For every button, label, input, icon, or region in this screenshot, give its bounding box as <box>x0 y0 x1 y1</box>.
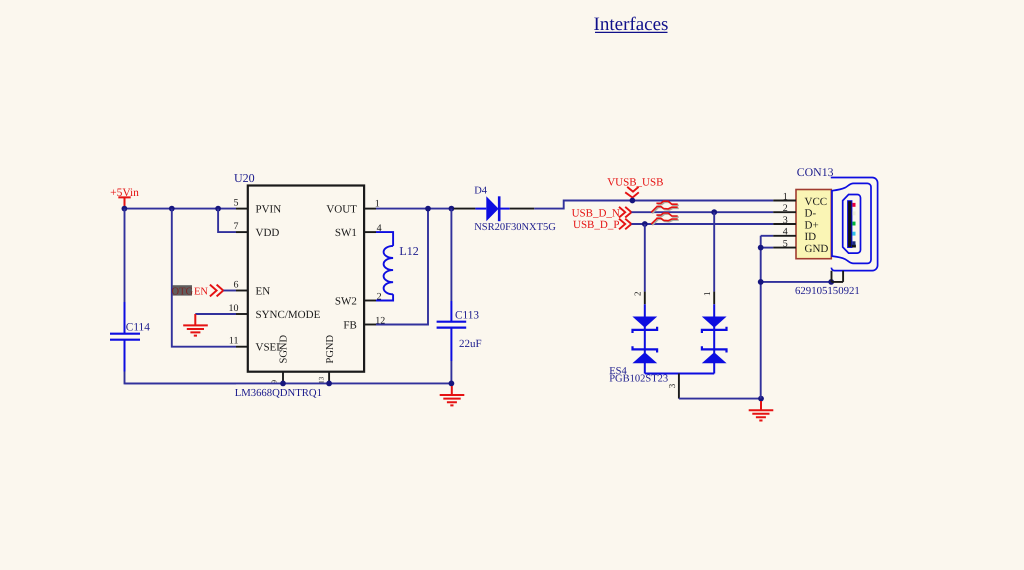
svg-text:SW2: SW2 <box>335 296 357 308</box>
contact 2 <box>852 211 855 215</box>
ground GND1 <box>183 314 208 336</box>
svg-text:2: 2 <box>783 203 788 214</box>
svg-text:C113: C113 <box>455 310 479 322</box>
node junction +5V/C114 <box>122 206 128 212</box>
svg-text:USB_D_N: USB_D_N <box>572 207 620 219</box>
svg-text:22uF: 22uF <box>459 338 482 350</box>
pin 11 VSEL <box>229 336 283 354</box>
svg-text:VDD: VDD <box>256 227 280 239</box>
svg-text:VUSB_USB: VUSB_USB <box>607 177 663 189</box>
USB receptacle face outline <box>843 195 861 254</box>
IC U20 (regulator) <box>234 171 364 372</box>
USB receptacle outer outline <box>831 178 878 271</box>
inductor L12 <box>384 244 419 294</box>
svg-text:CON13: CON13 <box>797 165 834 179</box>
pin 1 VOUT <box>326 198 379 215</box>
svg-text:5: 5 <box>234 198 239 209</box>
ground GND2 <box>440 386 465 405</box>
node junction SGND <box>280 381 286 387</box>
TVS diode A (ES4) <box>632 304 657 373</box>
svg-text:PVIN: PVIN <box>256 204 282 216</box>
svg-text:SGND: SGND <box>278 334 289 363</box>
power port VUSB_USB <box>607 177 663 201</box>
svg-text:4: 4 <box>783 227 788 238</box>
svg-text:10: 10 <box>229 303 239 314</box>
wire SYNC/MODE to ground <box>195 313 236 315</box>
node junction shield T <box>758 279 764 285</box>
node junction PGND <box>326 381 332 387</box>
svg-text:1: 1 <box>783 191 788 202</box>
pin PGND <box>317 334 336 383</box>
pin SGND <box>269 334 289 383</box>
svg-text:USB_D_P: USB_D_P <box>573 219 619 231</box>
svg-text:LM3668QDNTRQ1: LM3668QDNTRQ1 <box>235 387 322 399</box>
wire VSEL branch <box>172 209 236 347</box>
node junction D_N / ESD branch B <box>711 209 717 215</box>
port chevron USB_D_N <box>619 207 631 218</box>
USB receptacle shell outline <box>832 183 871 263</box>
contact 1 <box>852 203 855 207</box>
svg-text:FB: FB <box>343 320 356 332</box>
pin 3 ES4 <box>667 374 679 399</box>
svg-text:U20: U20 <box>234 171 255 185</box>
pin 1 VCC <box>773 191 827 208</box>
node junction gnd rail <box>758 396 764 402</box>
wire ID bend <box>761 235 774 237</box>
OTG blanket label <box>172 285 194 297</box>
svg-text:NSR20F30NXT5G: NSR20F30NXT5G <box>474 222 556 233</box>
svg-text:EN: EN <box>256 286 271 298</box>
wire SW1 to L12 <box>376 232 393 246</box>
differential pair directive 2 <box>651 213 679 225</box>
wire GND pin5 <box>761 247 774 249</box>
wire VDD branch <box>218 209 236 233</box>
svg-text:EN: EN <box>194 287 208 298</box>
wire USB_D_P row <box>631 223 773 225</box>
pin 2 SW2 <box>335 291 382 307</box>
contact 3 <box>852 222 855 226</box>
pin 7 VDD <box>234 221 280 239</box>
pin 1 ES4 <box>702 292 714 305</box>
wire VOUT row <box>376 208 454 210</box>
pin 2 ES4 <box>633 292 645 305</box>
USB contact bar <box>848 201 856 248</box>
svg-text:5: 5 <box>783 239 788 250</box>
pin 6 EN <box>234 279 271 297</box>
wire ESD branch A drop <box>644 224 646 292</box>
port chevron EN <box>210 285 223 297</box>
wire EN to pin6 <box>223 290 236 292</box>
pin 12 FB <box>343 315 385 331</box>
node junction VSEL branch <box>169 206 175 212</box>
wire C114 lower to rail <box>125 372 237 384</box>
svg-text:ID: ID <box>805 231 817 243</box>
diode D4 NSR20F30NXT5G <box>454 186 557 233</box>
svg-text:D4: D4 <box>474 186 488 197</box>
svg-text:PGND: PGND <box>325 334 336 363</box>
svg-text:3: 3 <box>667 383 677 388</box>
connector CON13 body <box>796 190 831 259</box>
wire ES4 pin3 to ground rail <box>679 398 761 400</box>
svg-text:2: 2 <box>633 292 643 297</box>
capacitor C114 <box>110 302 150 372</box>
svg-text:L12: L12 <box>399 244 418 258</box>
node junction GND pin5 <box>758 245 764 251</box>
svg-text:VCC: VCC <box>805 196 828 208</box>
wire FB branch <box>376 209 428 325</box>
svg-text:3: 3 <box>783 215 788 226</box>
svg-text:1: 1 <box>702 292 712 297</box>
svg-text:6: 6 <box>234 279 239 290</box>
contact 4 <box>852 232 855 236</box>
TVS diode B (ES4) <box>702 304 727 373</box>
ground GND3 <box>749 401 774 421</box>
wire USB_D_N row <box>631 211 773 213</box>
capacitor C113 22uF <box>437 301 482 361</box>
pin 5 GND <box>773 239 828 256</box>
svg-text:OTG: OTG <box>172 286 194 297</box>
svg-text:PGB102ST23: PGB102ST23 <box>609 374 668 385</box>
node junction shield end <box>828 279 834 285</box>
wire ESD branch B drop <box>713 212 715 291</box>
svg-text:VOUT: VOUT <box>326 204 357 216</box>
svg-text:D+: D+ <box>805 219 819 231</box>
node junction VDD branch <box>215 206 221 212</box>
node junction C113/rail <box>449 381 455 387</box>
pin 10 SYNC/MODE <box>229 303 321 321</box>
wire D4 to VUSB step <box>534 201 773 209</box>
node junction FB/VOUT <box>425 206 431 212</box>
power flag +5Vin <box>110 187 139 209</box>
shield pins <box>832 271 844 282</box>
svg-text:D-: D- <box>805 208 817 220</box>
wire L12 to SW2 <box>376 294 393 300</box>
svg-text:GND: GND <box>805 243 829 255</box>
differential pair directive 1 <box>651 201 679 213</box>
wire C113 lower <box>450 361 452 383</box>
svg-text:C114: C114 <box>126 322 150 334</box>
contact 5 <box>852 241 855 245</box>
pin 5 PVIN <box>234 198 282 216</box>
port chevron USB_D_P <box>619 219 631 230</box>
pin 3 D+ <box>773 215 818 232</box>
svg-text:7: 7 <box>234 221 239 232</box>
wire ID/GND vertical rail <box>760 236 762 399</box>
pin 4 ID <box>773 227 816 244</box>
wire shield link <box>761 281 832 283</box>
wire +5V top rail <box>124 208 236 210</box>
wire C114 upper <box>124 209 126 302</box>
title Interfaces <box>594 14 669 35</box>
svg-text:11: 11 <box>229 336 239 347</box>
node junction C113/VOUT <box>449 206 455 212</box>
wire ES4 bottom join <box>645 373 714 375</box>
node junction D_P / ESD branch A <box>642 221 648 227</box>
wire bottom rail <box>125 382 452 384</box>
pin 4 SW1 <box>335 223 382 239</box>
node junction VUSB <box>630 198 636 204</box>
svg-text:629105150921: 629105150921 <box>795 285 860 297</box>
svg-text:SW1: SW1 <box>335 227 357 239</box>
svg-text:SYNC/MODE: SYNC/MODE <box>256 309 321 321</box>
wire C113 upper <box>450 209 452 301</box>
pin 2 D- <box>773 203 816 220</box>
